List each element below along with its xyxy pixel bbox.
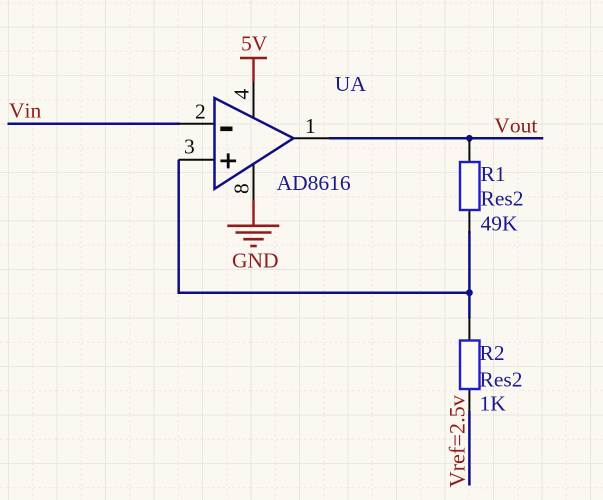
wire R2 to Vref	[468, 411, 471, 486]
pin 4	[230, 82, 254, 120]
svg-text:UA: UA	[335, 72, 367, 96]
pin 1	[294, 114, 330, 138]
svg-text:R1: R1	[481, 162, 506, 186]
pin 2	[179, 100, 216, 124]
ground GND	[227, 200, 279, 273]
resistor R1	[460, 140, 524, 235]
svg-text:Vout: Vout	[494, 114, 537, 138]
svg-text:R2: R2	[480, 341, 505, 365]
wire lower junction to R2	[468, 293, 471, 319]
svg-text:4: 4	[230, 89, 254, 100]
wire feedback from pin 3 to lower junction	[179, 160, 470, 293]
svg-text:3: 3	[184, 135, 195, 159]
svg-text:AD8616: AD8616	[277, 171, 351, 195]
resistor R2	[460, 317, 523, 416]
svg-text:Vin: Vin	[9, 99, 42, 123]
power 5V	[240, 32, 268, 82]
pin 8	[229, 164, 253, 200]
wire Vout net	[329, 137, 543, 140]
pin 3	[179, 135, 216, 160]
svg-text:49K: 49K	[481, 211, 519, 235]
svg-text:2: 2	[195, 100, 206, 124]
svg-text:Res2: Res2	[481, 186, 524, 210]
wire R1 to lower junction	[468, 231, 471, 293]
junction at feedback	[466, 289, 473, 296]
svg-text:1K: 1K	[480, 392, 507, 416]
svg-text:1: 1	[305, 114, 316, 138]
wire junction to R1	[468, 138, 471, 142]
svg-text:8: 8	[229, 183, 253, 194]
svg-text:5V: 5V	[241, 32, 268, 56]
op-amp UA triangle	[215, 98, 294, 189]
wire Vin net	[8, 122, 180, 125]
svg-text:GND: GND	[232, 249, 279, 273]
svg-text:Vref=2.5v: Vref=2.5v	[445, 394, 470, 487]
junction at Vout	[466, 135, 473, 142]
svg-text:Res2: Res2	[480, 368, 523, 392]
